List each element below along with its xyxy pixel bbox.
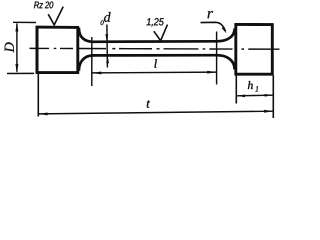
left head top edge — [36, 26, 79, 29]
dimension t line — [39, 111, 273, 114]
dimension t extension line right — [272, 75, 274, 118]
dimension l line — [93, 71, 217, 74]
right lower fillet — [217, 55, 235, 69]
leader line r — [201, 22, 226, 31]
dimension d0 line — [106, 25, 109, 68]
dimension h1 extension line left — [235, 75, 237, 103]
arrowhead h1 left — [237, 95, 245, 98]
arrowhead d0 down — [105, 34, 108, 42]
arrowhead r leader — [222, 27, 227, 34]
label t — [147, 100, 150, 107]
dimension D line — [16, 24, 18, 72]
arrowhead t left — [39, 113, 48, 116]
roughness check mark 1,25 — [154, 25, 168, 41]
label D — [5, 42, 14, 52]
roughness check mark Rz20 — [48, 7, 63, 25]
label d0 — [104, 12, 111, 22]
right head top edge — [235, 23, 274, 26]
right head bottom edge — [235, 73, 274, 76]
label h1 — [248, 81, 253, 89]
arrowhead l left — [92, 72, 101, 75]
label Rz 20 — [34, 1, 53, 8]
arrowhead D top — [15, 22, 18, 31]
left head left edge — [36, 26, 39, 74]
left upper fillet — [79, 28, 94, 42]
label 1,25 — [147, 18, 164, 27]
gauge top edge — [91, 40, 217, 43]
label l — [154, 59, 156, 67]
right head right edge — [271, 23, 274, 75]
dimension l extension line right — [216, 32, 218, 85]
dimension t extension line left — [37, 74, 39, 117]
centerline axis — [30, 47, 280, 50]
dimension l extension line left — [91, 37, 93, 86]
dimension h1 line — [237, 94, 273, 97]
label r — [208, 11, 213, 18]
arrowhead d0 up — [106, 56, 109, 64]
left head right edge (face) — [76, 26, 79, 73]
left lower fillet — [79, 55, 94, 70]
arrowhead t right — [264, 110, 273, 113]
right head left edge (face) — [234, 23, 237, 75]
right upper fillet — [217, 29, 235, 42]
arrowhead l right — [207, 71, 216, 74]
left head bottom edge — [36, 71, 79, 74]
arrowhead h1 right — [265, 94, 273, 97]
arrowhead D bottom — [15, 64, 18, 73]
gauge bottom edge — [91, 54, 217, 57]
dimension D extension line bottom — [7, 72, 34, 74]
dimension D extension line top — [13, 21, 36, 23]
